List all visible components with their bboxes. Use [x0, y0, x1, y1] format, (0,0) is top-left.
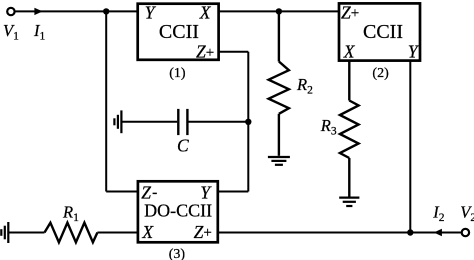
svg-text:X: X — [343, 41, 356, 61]
node junction C (capacitor to vertical wire) — [245, 119, 251, 125]
wire: vertical from junction A down to Z- row — [105, 11, 107, 191]
svg-text:(2): (2) — [372, 66, 389, 81]
op-amp block CCII (1) — [138, 4, 219, 60]
ground (below R3) — [339, 198, 359, 206]
svg-text:CCII: CCII — [159, 21, 199, 43]
resistor R3 — [340, 61, 359, 197]
wire: vertical from Z+ of CCII(1) down to Y of DO-CCII — [247, 52, 249, 192]
op-amp block DO-CCII (3) — [138, 181, 218, 242]
wire: CCII(1) X pin to CCII(2) Z+ pin — [219, 10, 340, 12]
terminal V1 — [7, 8, 14, 15]
wire: CCII(1) Z+ stub right — [219, 51, 249, 53]
arrow I1 current direction — [34, 8, 42, 15]
wire: DO-CCII Z+ pin to terminal V2 — [218, 232, 462, 234]
svg-text:X: X — [199, 2, 212, 22]
resistor R2 — [269, 11, 289, 155]
wire: capacitor left lead — [121, 121, 177, 123]
svg-text:(3): (3) — [169, 247, 186, 260]
wire: capacitor right lead to junction C — [189, 121, 249, 123]
ground (capacitor left, sideways) — [114, 110, 121, 133]
svg-text:Z-: Z- — [141, 182, 157, 202]
node junction D on bottom rail — [407, 229, 413, 235]
svg-text:(1): (1) — [169, 66, 186, 81]
arrow I2 current direction — [434, 229, 442, 236]
wire top-left: V1 terminal to CCII(1) Y pin — [15, 10, 137, 12]
wire: R1 to DO-CCII X pin — [97, 232, 138, 234]
svg-text:Z+: Z+ — [341, 2, 359, 22]
resistor R1 — [45, 223, 98, 243]
svg-text:CCII: CCII — [363, 21, 403, 43]
capacitor C plates — [178, 109, 187, 135]
terminal V2 — [462, 229, 469, 236]
wire: ground to resistor R1 — [8, 232, 44, 234]
svg-text:DO-CCII: DO-CCII — [144, 200, 212, 220]
wire: stub from DO-CCII Y pin — [218, 191, 249, 193]
svg-text:X: X — [141, 222, 154, 242]
wire: stub into DO-CCII Z- pin — [106, 191, 138, 193]
ground (bottom-left, sideways) — [1, 222, 8, 243]
wire: CCII(2) Y pin down to bottom rail — [409, 61, 411, 233]
node junction A on top wire — [103, 8, 109, 14]
ground (below R2) — [268, 157, 290, 165]
svg-text:C: C — [177, 136, 189, 156]
op-amp block CCII (2) — [339, 3, 420, 60]
svg-text:Z+: Z+ — [196, 42, 214, 62]
node junction B (R2 top) — [276, 8, 282, 14]
svg-text:Z+: Z+ — [194, 222, 212, 242]
